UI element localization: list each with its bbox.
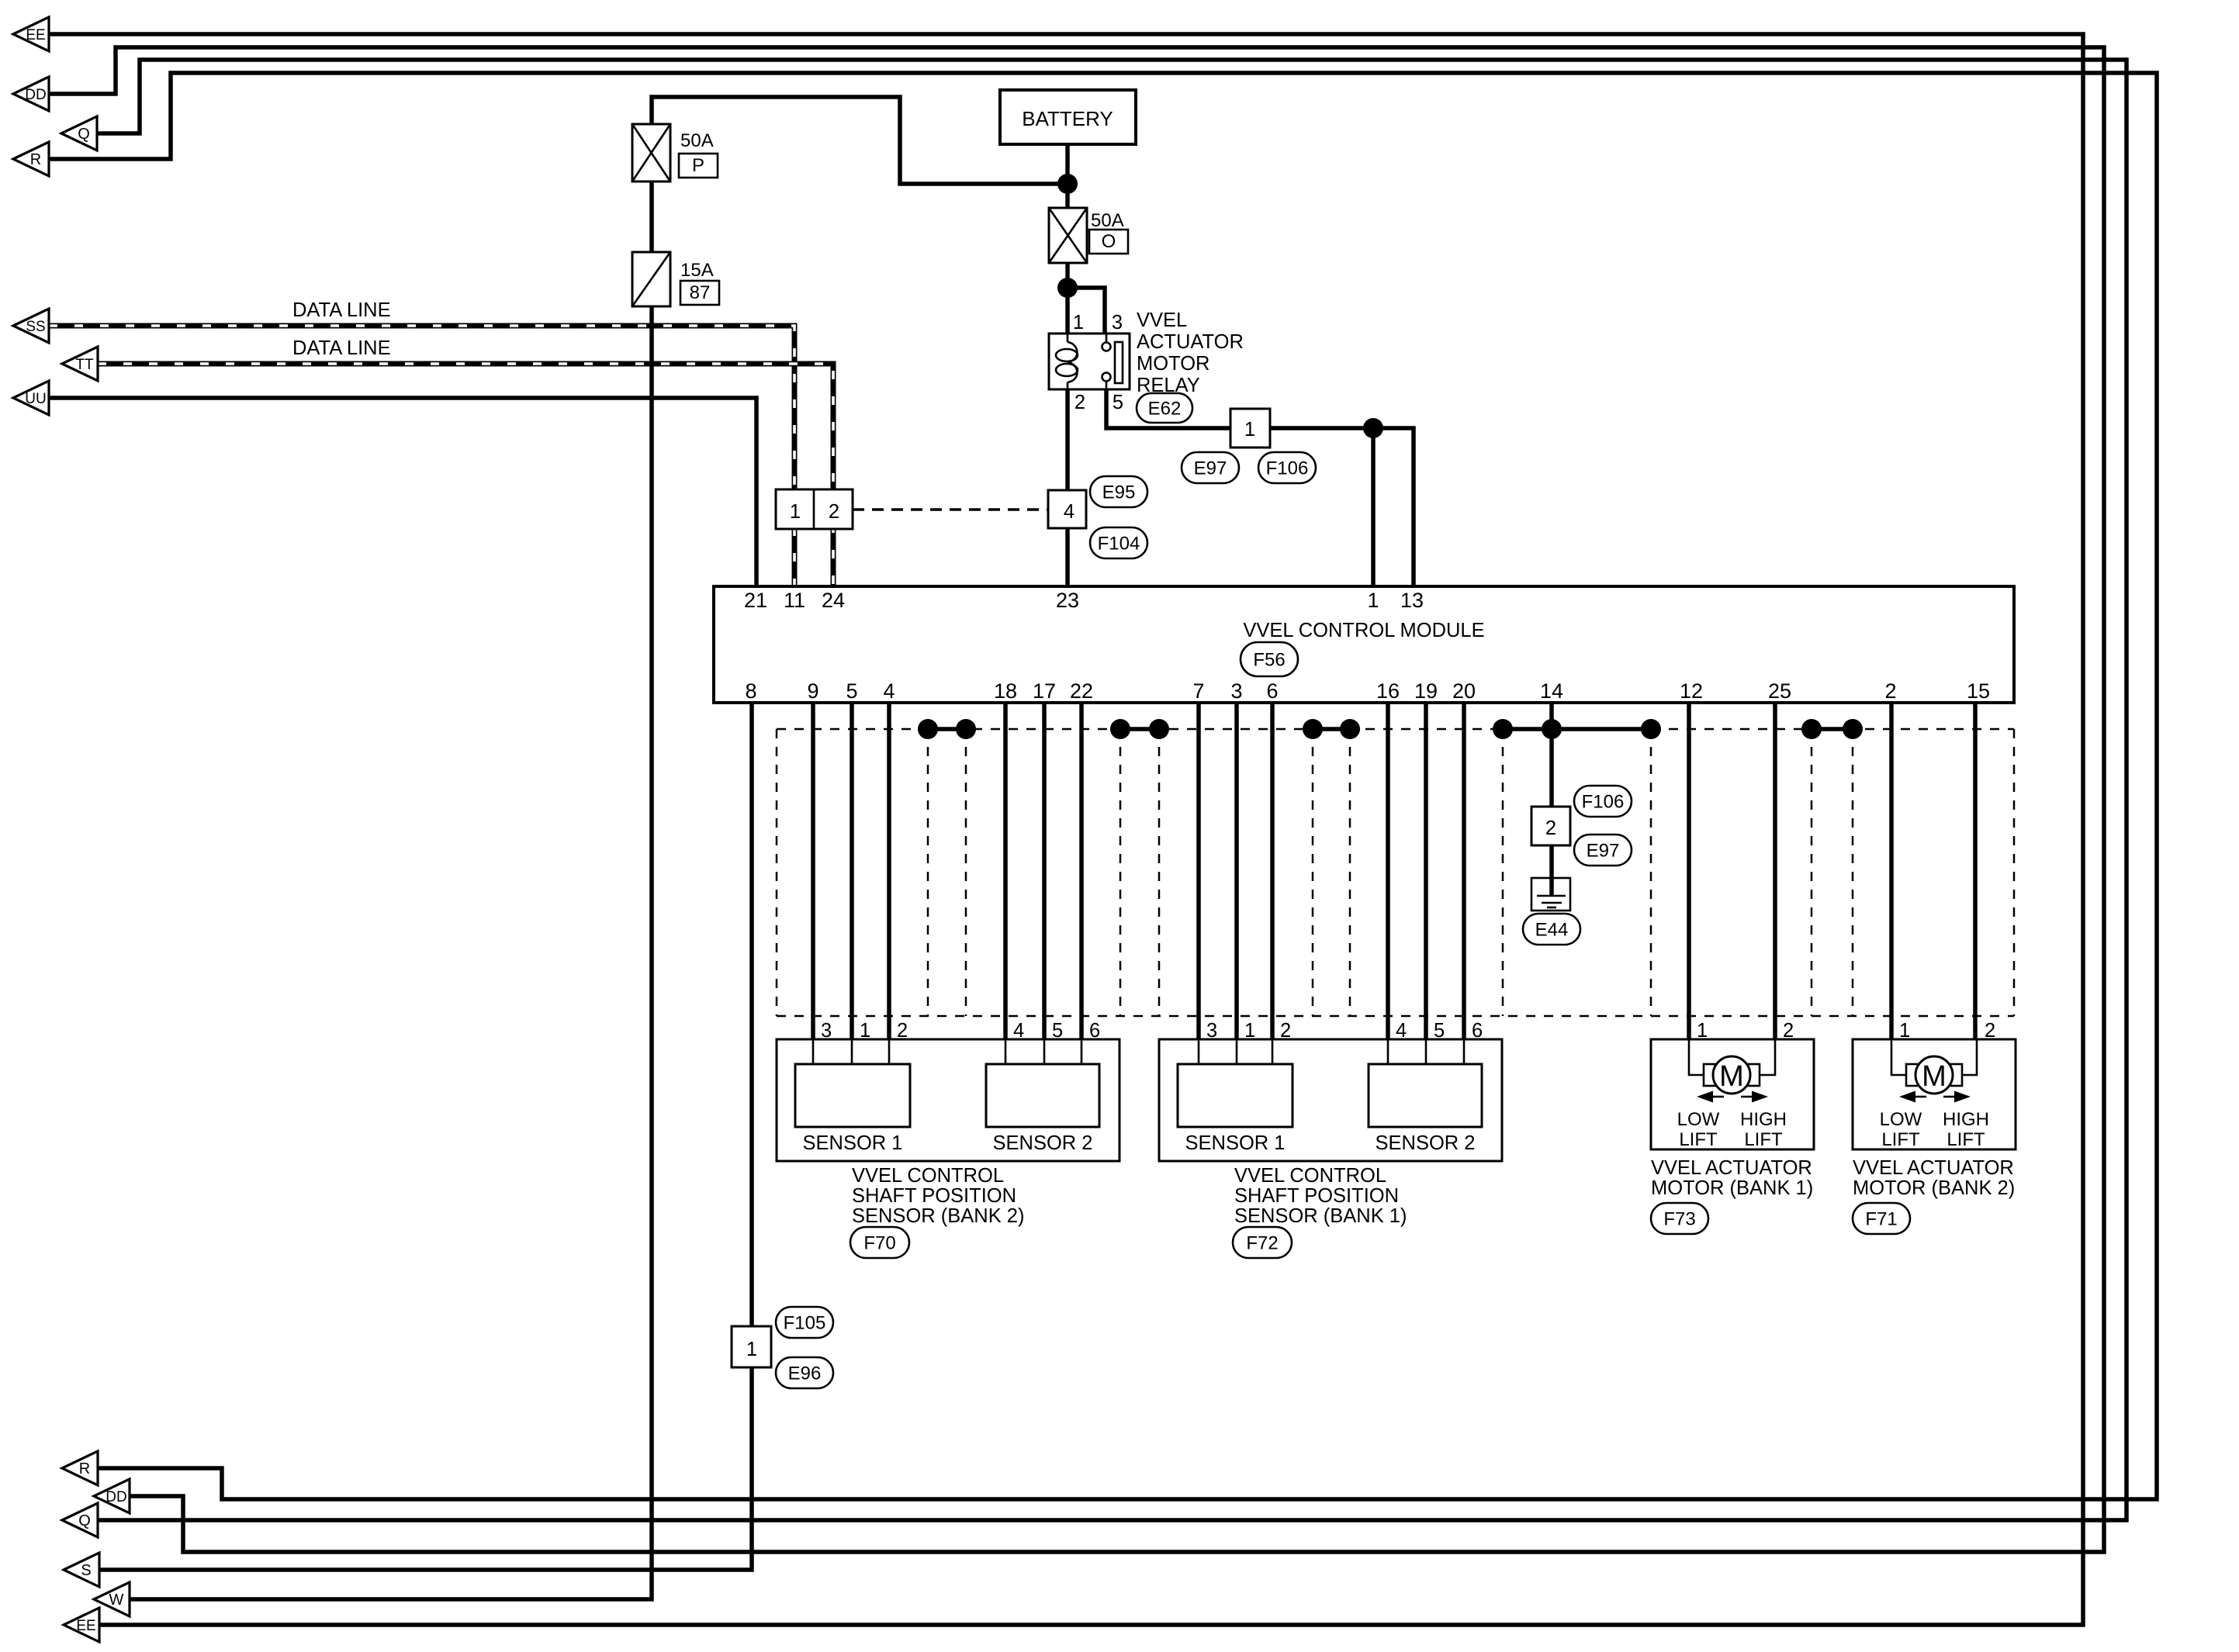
svg-text:VVEL CONTROL: VVEL CONTROL	[1234, 1165, 1386, 1187]
svg-text:F72: F72	[1246, 1233, 1278, 1254]
svg-text:2: 2	[1985, 1020, 1995, 1042]
svg-text:9: 9	[807, 679, 818, 703]
svg-text:VVEL: VVEL	[1137, 309, 1187, 331]
svg-text:25: 25	[1768, 679, 1791, 703]
svg-text:F106: F106	[1582, 792, 1625, 813]
svg-text:50A: 50A	[1091, 210, 1124, 231]
svg-text:1: 1	[746, 1339, 757, 1360]
svg-text:1: 1	[1899, 1020, 1910, 1042]
svg-text:SENSOR (BANK 1): SENSOR (BANK 1)	[1234, 1205, 1407, 1227]
svg-text:15A: 15A	[680, 260, 714, 281]
svg-text:18: 18	[994, 679, 1017, 703]
svg-text:MOTOR (BANK 2): MOTOR (BANK 2)	[1853, 1177, 2015, 1199]
svg-text:3: 3	[821, 1020, 832, 1042]
svg-text:24: 24	[822, 589, 845, 612]
svg-text:12: 12	[1680, 679, 1703, 703]
svg-text:VVEL CONTROL MODULE: VVEL CONTROL MODULE	[1243, 620, 1484, 641]
svg-text:UU: UU	[25, 391, 46, 407]
svg-text:VVEL CONTROL: VVEL CONTROL	[852, 1165, 1004, 1187]
svg-text:23: 23	[1056, 589, 1079, 612]
svg-text:2: 2	[1075, 392, 1085, 413]
svg-text:VVEL ACTUATOR: VVEL ACTUATOR	[1853, 1157, 2014, 1179]
svg-text:R: R	[79, 1460, 90, 1477]
svg-text:DD: DD	[106, 1489, 126, 1505]
svg-text:E97: E97	[1587, 841, 1620, 862]
svg-text:5: 5	[846, 679, 857, 703]
svg-text:2: 2	[829, 501, 839, 523]
svg-text:DD: DD	[25, 87, 46, 103]
svg-text:20: 20	[1452, 679, 1476, 703]
svg-text:7: 7	[1192, 679, 1204, 703]
svg-text:16: 16	[1376, 679, 1400, 703]
svg-text:8: 8	[745, 679, 756, 703]
svg-text:SENSOR 2: SENSOR 2	[1376, 1132, 1476, 1154]
svg-text:22: 22	[1070, 679, 1093, 703]
svg-text:SHAFT POSITION: SHAFT POSITION	[852, 1185, 1016, 1207]
svg-text:6: 6	[1266, 679, 1278, 703]
svg-text:R: R	[30, 151, 41, 168]
svg-text:LIFT: LIFT	[1679, 1129, 1718, 1150]
svg-text:6: 6	[1472, 1020, 1483, 1042]
svg-text:1: 1	[790, 501, 801, 523]
svg-text:DATA LINE: DATA LINE	[292, 299, 391, 321]
svg-text:1: 1	[1244, 1020, 1255, 1042]
svg-text:E97: E97	[1194, 458, 1227, 479]
svg-text:Q: Q	[78, 126, 90, 143]
svg-text:F71: F71	[1865, 1209, 1897, 1230]
svg-text:Q: Q	[78, 1512, 91, 1529]
svg-text:2: 2	[1884, 679, 1896, 703]
svg-text:3: 3	[1112, 312, 1123, 334]
svg-text:HIGH: HIGH	[1740, 1109, 1787, 1130]
svg-text:O: O	[1102, 231, 1116, 252]
svg-text:EE: EE	[76, 1618, 95, 1634]
svg-text:SHAFT POSITION: SHAFT POSITION	[1234, 1185, 1399, 1207]
svg-text:2: 2	[1783, 1020, 1794, 1042]
svg-text:EE: EE	[26, 27, 45, 43]
svg-text:F104: F104	[1098, 534, 1140, 555]
svg-text:E62: E62	[1148, 399, 1182, 420]
svg-text:E96: E96	[788, 1363, 822, 1384]
svg-text:3: 3	[1230, 679, 1242, 703]
svg-text:17: 17	[1033, 679, 1056, 703]
svg-text:M: M	[1922, 1060, 1947, 1093]
svg-text:4: 4	[1396, 1020, 1407, 1042]
svg-text:SENSOR 2: SENSOR 2	[993, 1132, 1093, 1154]
svg-text:ACTUATOR: ACTUATOR	[1137, 331, 1244, 353]
svg-text:11: 11	[784, 589, 805, 612]
svg-text:F105: F105	[784, 1313, 826, 1334]
svg-text:4: 4	[1013, 1020, 1024, 1042]
svg-text:F106: F106	[1266, 458, 1309, 479]
svg-text:SENSOR (BANK 2): SENSOR (BANK 2)	[852, 1205, 1024, 1227]
svg-text:F73: F73	[1663, 1209, 1695, 1230]
svg-text:VVEL ACTUATOR: VVEL ACTUATOR	[1651, 1157, 1812, 1179]
svg-text:14: 14	[1540, 679, 1563, 703]
svg-text:W: W	[109, 1592, 124, 1609]
svg-text:5: 5	[1113, 392, 1123, 413]
svg-text:2: 2	[1280, 1020, 1291, 1042]
svg-text:E44: E44	[1535, 920, 1569, 941]
svg-text:50A: 50A	[680, 130, 714, 151]
svg-text:P: P	[692, 155, 704, 176]
svg-text:19: 19	[1414, 679, 1438, 703]
svg-text:LIFT: LIFT	[1881, 1129, 1920, 1150]
svg-text:SS: SS	[26, 319, 45, 335]
svg-text:15: 15	[1967, 679, 1990, 703]
svg-text:F56: F56	[1253, 650, 1285, 671]
svg-text:LOW: LOW	[1677, 1109, 1720, 1130]
svg-text:5: 5	[1434, 1020, 1445, 1042]
svg-text:SENSOR 1: SENSOR 1	[1185, 1132, 1286, 1154]
svg-text:TT: TT	[75, 357, 94, 373]
svg-text:2: 2	[897, 1020, 908, 1042]
svg-text:E95: E95	[1102, 482, 1136, 503]
svg-text:LIFT: LIFT	[1947, 1129, 1985, 1150]
svg-text:DATA LINE: DATA LINE	[292, 337, 391, 359]
svg-text:1: 1	[860, 1020, 870, 1042]
svg-text:1: 1	[1073, 312, 1084, 334]
svg-text:5: 5	[1052, 1020, 1063, 1042]
svg-text:3: 3	[1206, 1020, 1217, 1042]
svg-text:F70: F70	[863, 1233, 895, 1254]
svg-text:87: 87	[690, 282, 711, 303]
svg-text:2: 2	[1545, 817, 1556, 839]
svg-text:MOTOR (BANK 1): MOTOR (BANK 1)	[1651, 1177, 1813, 1199]
svg-text:13: 13	[1400, 589, 1424, 612]
svg-text:1: 1	[1244, 419, 1255, 441]
svg-text:S: S	[81, 1562, 91, 1579]
svg-text:M: M	[1719, 1060, 1744, 1093]
svg-text:BATTERY: BATTERY	[1022, 107, 1113, 130]
svg-text:LIFT: LIFT	[1744, 1129, 1783, 1150]
svg-text:SENSOR 1: SENSOR 1	[803, 1132, 903, 1154]
svg-text:1: 1	[1367, 589, 1379, 612]
svg-text:4: 4	[883, 679, 895, 703]
svg-text:1: 1	[1697, 1020, 1708, 1042]
svg-text:6: 6	[1089, 1020, 1100, 1042]
svg-text:4: 4	[1064, 501, 1075, 523]
svg-text:LOW: LOW	[1880, 1109, 1922, 1130]
svg-text:21: 21	[744, 589, 767, 612]
svg-text:HIGH: HIGH	[1943, 1109, 1989, 1130]
svg-text:MOTOR: MOTOR	[1137, 353, 1209, 375]
